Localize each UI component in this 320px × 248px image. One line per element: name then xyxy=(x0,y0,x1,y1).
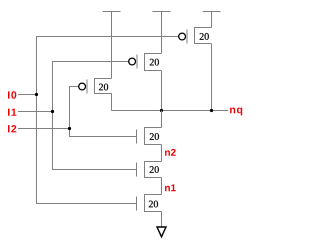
input label I2 xyxy=(8,125,16,132)
transistor P1 gate I2 (PMOS) xyxy=(79,79,112,94)
junction I1 xyxy=(51,110,54,113)
wire VDD1 stem xyxy=(111,12,113,79)
power symbol VDD1 xyxy=(103,11,121,13)
value label P1 width=20 xyxy=(99,84,108,91)
node label n2 xyxy=(165,149,176,156)
transistor N1 gate I0 (NMOS) xyxy=(137,195,162,212)
wire I2 to N3 gate xyxy=(69,136,137,138)
value label P3 width=20 xyxy=(200,33,209,40)
wire I1 to N2 gate xyxy=(52,169,137,171)
ground xyxy=(157,227,166,237)
wire I2 to P1 gate xyxy=(69,86,78,88)
wire I2 vertical xyxy=(69,87,71,137)
wire VDD3 stem xyxy=(211,12,213,28)
wire P3 drain to output xyxy=(211,44,213,111)
transistor N2 gate I1 (NMOS) xyxy=(137,162,162,178)
value label N2 width=20 xyxy=(150,166,159,173)
wire I0 label stub xyxy=(18,94,37,96)
junction output / P3 drain xyxy=(210,109,213,112)
wire node n2 xyxy=(161,145,163,162)
wire I0 to P3 gate xyxy=(36,36,178,38)
wire VDD2 stem xyxy=(161,12,163,54)
power symbol VDD3 xyxy=(203,11,221,13)
junction I2 xyxy=(68,127,71,130)
wire I0 to N1 gate xyxy=(36,203,137,205)
wire I2 label stub xyxy=(18,128,70,130)
value label P2 width=20 xyxy=(150,59,159,66)
input label I0 xyxy=(8,91,16,98)
wire P2 drain to output xyxy=(161,71,163,111)
wire I1 to P2 gate xyxy=(52,61,128,63)
node label n1 xyxy=(165,184,176,191)
wire P1 drain to output xyxy=(111,94,113,111)
output label nq xyxy=(230,108,242,116)
junction output / NMOS stack xyxy=(160,109,163,112)
input label I1 xyxy=(8,109,16,116)
wire node n1 xyxy=(161,178,163,195)
wire I1 vertical xyxy=(52,62,54,170)
value label N3 width=20 xyxy=(150,133,159,140)
wire N1 source to ground xyxy=(161,212,163,228)
transistor P3 gate I0 (PMOS) xyxy=(179,28,212,44)
power symbol VDD2 xyxy=(153,11,171,13)
junction I0 xyxy=(35,93,38,96)
wire output net nq xyxy=(112,110,229,112)
value label N1 width=20 xyxy=(149,201,158,208)
wire output to N3 drain xyxy=(161,111,163,128)
wire I0 vertical xyxy=(36,37,38,204)
wire I1 label stub xyxy=(18,111,53,113)
transistor P2 gate I1 (PMOS) xyxy=(129,54,162,71)
transistor N3 gate I2 (NMOS) xyxy=(137,128,162,145)
